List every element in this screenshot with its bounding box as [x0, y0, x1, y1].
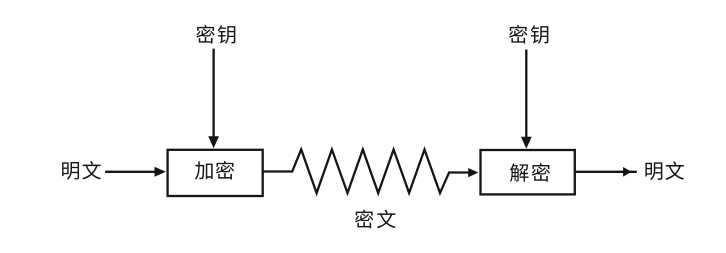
arrowhead: plaintext into encrypt box [155, 167, 166, 177]
decrypt box [481, 150, 575, 194]
arrowhead: decrypt output [623, 167, 631, 177]
wire: right key vertical line [525, 50, 527, 140]
encrypt box [168, 150, 263, 196]
label 密钥 (right key) [509, 25, 548, 44]
label 明文 (right plaintext) [645, 161, 684, 180]
wire: plaintext output line [576, 171, 637, 173]
wire: left key vertical line [212, 49, 214, 139]
wire: plaintext input line [105, 171, 156, 173]
arrowhead: zigzag into decrypt box [468, 168, 478, 177]
label 明文 (left plaintext) [62, 161, 101, 180]
arrowhead: right key into decrypt box [521, 137, 532, 149]
label 密文 (ciphertext) [355, 210, 396, 229]
label 密钥 (left key) [196, 25, 235, 44]
arrowhead: left key into encrypt box [208, 136, 219, 148]
wire: channel zigzag (ciphertext path) [263, 150, 470, 194]
label 解密 (decrypt box text) [510, 163, 550, 182]
label 加密 (encrypt box text) [195, 161, 234, 180]
